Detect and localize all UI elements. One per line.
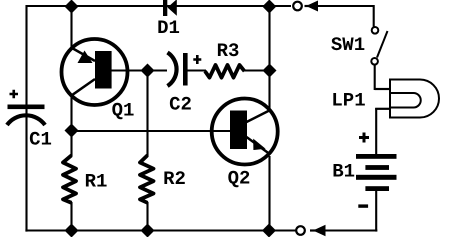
svg-text:SW1: SW1 xyxy=(331,34,365,56)
wire right mid rail upper xyxy=(268,6,270,110)
wire C2 to R3 xyxy=(186,69,206,71)
junction bottom R2 node xyxy=(141,224,155,238)
diode D1 xyxy=(157,0,180,39)
transistor Q1 xyxy=(62,39,135,122)
wire Q1 collector to node xyxy=(70,96,72,156)
svg-text:R2: R2 xyxy=(163,168,186,190)
junction Q1 collector / Q2 base node xyxy=(65,124,79,138)
wire Q1 base to C2 xyxy=(110,69,167,71)
svg-text:Q1: Q1 xyxy=(112,100,135,122)
wire left rail upper xyxy=(25,5,27,105)
svg-text:C2: C2 xyxy=(169,94,192,116)
svg-text:C1: C1 xyxy=(29,129,52,151)
wire Q2 emitter lead xyxy=(268,156,270,231)
svg-text:R3: R3 xyxy=(217,40,240,62)
wire R2 bottom lead xyxy=(146,202,148,231)
wire battery to bottom xyxy=(375,191,377,232)
junction bottom R1 node xyxy=(65,224,79,238)
wire Q2 base rail xyxy=(72,130,231,132)
junction bottom Q2 emitter node xyxy=(262,224,276,238)
svg-text:Q2: Q2 xyxy=(228,168,251,190)
terminal top output circle xyxy=(293,2,302,11)
lamp LP1 xyxy=(331,80,439,118)
junction R3 / right rail node xyxy=(263,64,277,78)
transistor Q2 xyxy=(212,99,278,190)
wire Q1 emitter lead xyxy=(70,6,72,49)
wire top right segment xyxy=(318,5,375,7)
capacitor C2 xyxy=(168,53,202,116)
wire lamp to battery xyxy=(375,108,377,155)
wire switch to lamp xyxy=(374,65,376,91)
battery B1 xyxy=(332,133,396,208)
wire left rail lower xyxy=(25,109,27,232)
resistor R3 xyxy=(205,40,245,78)
junction top-left node xyxy=(65,0,79,14)
junction top-right node xyxy=(262,0,276,14)
wire R2 top lead xyxy=(146,71,148,157)
wire bottom right segment xyxy=(325,229,377,231)
wire R3 to rail xyxy=(244,69,271,71)
junction Q1 base / C2 / R2 node xyxy=(141,64,155,78)
arrow bottom output xyxy=(310,229,316,231)
svg-text:LP1: LP1 xyxy=(331,90,365,112)
wire right rail to switch xyxy=(373,5,375,27)
svg-text:B1: B1 xyxy=(332,161,355,183)
wire bottom rail xyxy=(25,229,295,231)
svg-text:D1: D1 xyxy=(157,17,180,39)
terminal bottom output circle xyxy=(296,226,305,235)
capacitor C1 xyxy=(7,90,52,151)
resistor R2 xyxy=(140,155,186,203)
arrow top output xyxy=(305,5,310,7)
resistor R1 xyxy=(63,155,107,203)
switch SW1 xyxy=(331,27,388,65)
wire top rail xyxy=(27,5,292,7)
svg-text:R1: R1 xyxy=(85,171,108,193)
wire R1 bottom lead xyxy=(70,202,72,231)
